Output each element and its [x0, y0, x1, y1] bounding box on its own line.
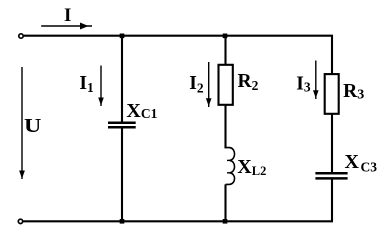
terminal bottom-left	[18, 219, 22, 223]
node junction top branch1	[120, 34, 125, 39]
wire branch3 lower	[331, 180, 333, 222]
svg-text:I3: I3	[296, 73, 311, 94]
capacitor XC3	[315, 173, 347, 178]
svg-text:XC3: XC3	[345, 151, 378, 175]
wire branch3 upper	[331, 35, 333, 74]
svg-text:R2: R2	[238, 71, 259, 93]
wire R2 to L2	[224, 105, 226, 149]
wire top bus	[24, 35, 333, 37]
wire R3 to C3	[331, 114, 333, 172]
svg-text:XC1: XC1	[126, 100, 157, 122]
wire bottom bus	[23, 220, 333, 222]
voltage arrow U	[19, 67, 25, 179]
svg-text:I1: I1	[79, 73, 94, 95]
node junction top branch2	[223, 34, 228, 39]
arrow I2	[206, 62, 212, 107]
wire branch2 upper	[224, 36, 226, 65]
arrow I3	[313, 61, 319, 100]
wire branch1 lower	[121, 128, 123, 221]
terminal top-left	[19, 34, 23, 38]
current arrow I	[41, 23, 92, 30]
node junction bottom branch1	[120, 219, 125, 224]
inductor XL2 coil	[226, 148, 235, 185]
resistor R3	[325, 74, 339, 114]
svg-text:U: U	[24, 114, 41, 137]
wire branch1 upper	[121, 36, 123, 122]
resistor R2	[219, 65, 233, 105]
svg-text:R3: R3	[343, 81, 364, 103]
node junction bottom branch2	[223, 219, 228, 224]
svg-text:I2: I2	[189, 73, 204, 95]
svg-text:I: I	[64, 5, 71, 26]
svg-text:XL2: XL2	[237, 156, 266, 178]
arrow I1	[98, 66, 104, 107]
wire branch2 lower	[224, 184, 226, 221]
capacitor XC1	[108, 123, 136, 128]
